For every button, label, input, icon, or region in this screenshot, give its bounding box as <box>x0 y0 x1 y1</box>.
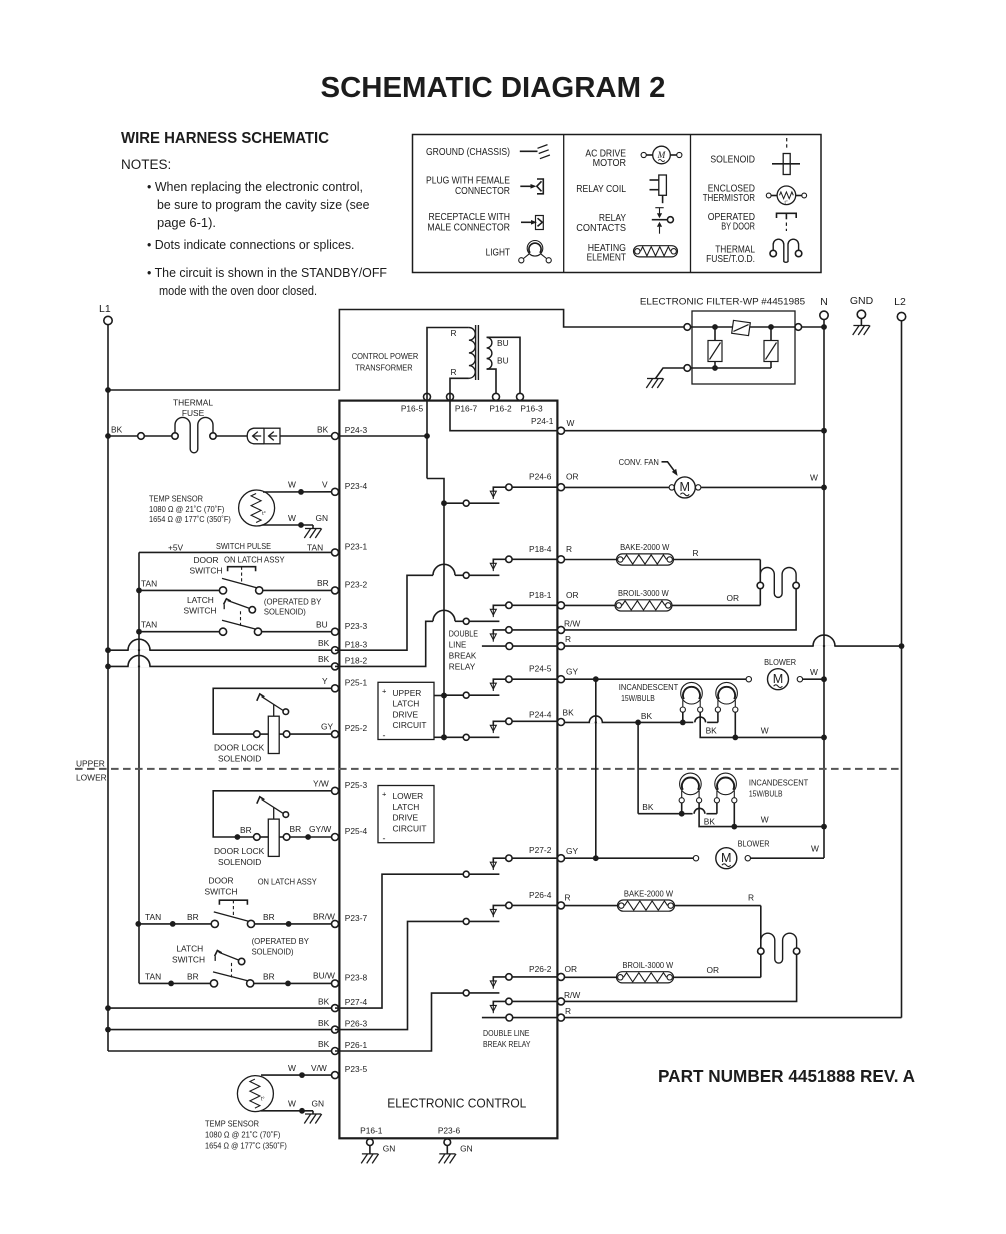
pin P23-1 <box>332 549 339 556</box>
svg-text:P18-1: P18-1 <box>529 590 552 600</box>
svg-text:P24-4: P24-4 <box>529 710 552 720</box>
pin P18-4 <box>558 556 565 563</box>
svg-text:GN: GN <box>312 1099 325 1109</box>
svg-text:FUSE: FUSE <box>182 408 205 418</box>
legend ac drive motor symbol <box>641 152 646 157</box>
svg-text:N: N <box>820 296 828 308</box>
lamp upper return W wire <box>700 712 735 737</box>
svg-text:TAN: TAN <box>307 543 323 553</box>
svg-text:BK: BK <box>318 1018 330 1028</box>
filter varistor left <box>708 341 722 362</box>
svg-text:P24-1: P24-1 <box>531 416 554 426</box>
lamp upper stems to BK wire <box>682 712 684 722</box>
svg-text:1080 Ω @ 21˚C (70˚F): 1080 Ω @ 21˚C (70˚F) <box>149 504 225 514</box>
svg-text:SWITCH PULSE: SWITCH PULSE <box>216 541 271 551</box>
transformer secondary lead top <box>487 337 520 393</box>
relay contact P26-4 <box>463 918 469 924</box>
svg-text:BU/W: BU/W <box>313 971 335 981</box>
svg-text:RELAY COIL: RELAY COIL <box>576 184 626 195</box>
svg-text:DRIVE: DRIVE <box>393 709 419 719</box>
lower door lock solenoid <box>213 791 331 837</box>
legend light symbol <box>527 241 543 257</box>
svg-text:GY: GY <box>566 667 579 677</box>
lamp lower stems <box>681 803 683 814</box>
svg-text:R: R <box>693 548 699 558</box>
transformer core <box>475 325 477 380</box>
blower upper wire <box>565 678 747 680</box>
svg-text:PART NUMBER 4451888 REV. A: PART NUMBER 4451888 REV. A <box>658 1066 915 1086</box>
thermal fuse <box>175 417 213 452</box>
svg-text:CONTROL POWER: CONTROL POWER <box>352 351 419 361</box>
svg-text:CONV. FAN: CONV. FAN <box>619 457 659 467</box>
relay contact P26-2 <box>463 990 469 996</box>
svg-text:CONTACTS: CONTACTS <box>576 223 626 234</box>
pin P26-3 <box>332 1026 339 1033</box>
upper door switch row wire <box>136 588 142 594</box>
svg-text:P16-1: P16-1 <box>360 1126 383 1136</box>
svg-text:LATCH: LATCH <box>187 595 214 605</box>
relay contact P24-5 <box>441 693 447 699</box>
svg-text:SOLENOID: SOLENOID <box>218 754 261 764</box>
svg-text:P23-7: P23-7 <box>345 913 368 923</box>
legend box <box>413 135 822 273</box>
wire R/W upper to TOD <box>565 589 797 630</box>
svg-text:Y: Y <box>322 676 328 686</box>
lower latch switch row wire <box>139 982 211 984</box>
svg-text:W: W <box>288 513 296 523</box>
svg-text:LIGHT: LIGHT <box>486 247 510 258</box>
svg-text:P23-6: P23-6 <box>438 1126 461 1136</box>
svg-text:ELEMENT: ELEMENT <box>587 253 626 264</box>
svg-text:P23-8: P23-8 <box>345 973 368 983</box>
ground symbol P16-1 <box>362 1153 378 1155</box>
splice connector <box>138 433 145 440</box>
transformer primary lead top <box>427 328 469 337</box>
svg-text:BU: BU <box>316 620 328 630</box>
svg-text:V: V <box>322 480 328 490</box>
lower door switch row wire <box>135 921 141 927</box>
svg-text:LOWER: LOWER <box>393 791 424 801</box>
svg-text:OR: OR <box>707 965 720 975</box>
electronic control box <box>339 401 557 1139</box>
pin P26-2 <box>558 973 565 980</box>
svg-text:BAKE-2000 W: BAKE-2000 W <box>624 888 673 898</box>
legend enclosed thermistor symbol <box>766 193 771 198</box>
BK wire L1 to P18-2 <box>105 664 111 670</box>
svg-text:ELECTRONIC FILTER-WP #4451985: ELECTRONIC FILTER-WP #4451985 <box>640 297 805 308</box>
BK wire L1 to P27-4 <box>105 1005 111 1011</box>
svg-text:R/W: R/W <box>564 990 580 1000</box>
svg-text:MOTOR: MOTOR <box>593 158 626 169</box>
svg-text:P26-3: P26-3 <box>345 1019 368 1029</box>
plug and receptacle pair <box>247 428 264 444</box>
wire R lower to L2 <box>565 1017 902 1019</box>
BK wire lamps lower <box>638 813 682 815</box>
pin P25-1 <box>332 685 339 692</box>
svg-text:OR: OR <box>727 593 740 603</box>
pin R/W lower <box>558 998 565 1005</box>
svg-text:SWITCH: SWITCH <box>172 955 205 965</box>
svg-text:P16-5: P16-5 <box>401 404 424 414</box>
svg-text:M: M <box>680 480 691 494</box>
svg-text:R: R <box>748 893 754 903</box>
svg-text:P24-5: P24-5 <box>529 664 552 674</box>
pin R/W upper <box>558 626 565 633</box>
filter vertical wire left varistor <box>714 327 716 368</box>
svg-text:TAN: TAN <box>141 620 157 630</box>
svg-text:SOLENOID: SOLENOID <box>218 857 261 867</box>
pin P16-7 <box>447 393 454 400</box>
svg-text:BREAK RELAY: BREAK RELAY <box>483 1039 531 1049</box>
svg-text:ON LATCH ASSY: ON LATCH ASSY <box>258 877 317 887</box>
svg-text:P26-2: P26-2 <box>529 964 552 974</box>
svg-text:P24-3: P24-3 <box>345 425 368 435</box>
ground symbol temp sensor lower <box>305 1113 321 1115</box>
legend heating element symbol <box>634 246 678 257</box>
svg-text:BK: BK <box>563 708 575 718</box>
pin P18-1 <box>558 602 565 609</box>
relay contact R/W upper <box>506 627 512 633</box>
svg-text:BLOWER: BLOWER <box>764 657 796 667</box>
svg-text:BR: BR <box>317 578 329 588</box>
svg-text:TRANSFORMER: TRANSFORMER <box>355 363 412 373</box>
pin P26-1 <box>332 1048 339 1055</box>
upper door lock solenoid <box>213 688 331 734</box>
svg-text:P26-4: P26-4 <box>529 890 552 900</box>
pin P24-6 <box>558 484 565 491</box>
lamp lower 1 <box>680 773 702 795</box>
wire temp sensor lower to P23-5 <box>261 1074 332 1076</box>
wire N vertical <box>823 320 825 859</box>
BK wire L1 to P18-3 <box>105 647 111 653</box>
relay contact R/W lower <box>506 998 512 1004</box>
svg-text:DOOR: DOOR <box>208 876 233 886</box>
svg-text:• When replacing the electroni: • When replacing the electronic control, <box>147 180 363 194</box>
svg-text:P16-2: P16-2 <box>489 404 512 414</box>
svg-text:OR: OR <box>565 964 578 974</box>
legend thermal fuse symbol <box>773 239 798 262</box>
svg-text:W: W <box>288 1099 296 1109</box>
filter input connector bottom <box>684 365 691 372</box>
svg-text:TAN: TAN <box>145 912 161 922</box>
wire P26-1 riser to contact <box>335 993 463 1051</box>
svg-text:BK: BK <box>111 425 123 435</box>
ground symbol P23-6 <box>439 1153 455 1155</box>
svg-text:P26-1: P26-1 <box>345 1040 368 1050</box>
svg-text:ELECTRONIC CONTROL: ELECTRONIC CONTROL <box>387 1096 526 1111</box>
svg-text:P23-5: P23-5 <box>345 1064 368 1074</box>
transformer primary coil <box>469 328 475 379</box>
legend operated by door symbol <box>777 213 797 218</box>
svg-text:RELAY: RELAY <box>449 661 476 671</box>
lamps BK vertical to lower section <box>637 722 639 813</box>
svg-text:TEMP SENSOR: TEMP SENSOR <box>149 494 203 504</box>
temp sensor upper (thermistor) <box>239 490 275 526</box>
transformer secondary coil <box>487 337 492 369</box>
legend relay coil symbol <box>659 175 667 195</box>
svg-text:P16-7: P16-7 <box>455 404 478 414</box>
svg-text:BK: BK <box>318 654 330 664</box>
svg-text:LATCH: LATCH <box>393 699 420 709</box>
svg-text:P23-4: P23-4 <box>345 481 368 491</box>
svg-text:WIRE HARNESS SCHEMATIC: WIRE HARNESS SCHEMATIC <box>121 130 329 147</box>
svg-text:SWITCH: SWITCH <box>204 887 237 897</box>
svg-text:SCHEMATIC DIAGRAM 2: SCHEMATIC DIAGRAM 2 <box>321 72 666 104</box>
svg-text:TEMP SENSOR: TEMP SENSOR <box>205 1119 259 1129</box>
svg-text:CONNECTOR: CONNECTOR <box>455 186 510 197</box>
pin P23-3 <box>332 628 339 635</box>
temp sensor lower (thermistor) <box>237 1076 273 1112</box>
svg-text:page 6-1).: page 6-1). <box>157 216 216 230</box>
legend receptacle symbol <box>521 221 534 223</box>
svg-text:(OPERATED BY: (OPERATED BY <box>252 936 310 946</box>
svg-text:W: W <box>567 418 575 428</box>
svg-text:W: W <box>811 844 819 854</box>
pin P18-3 <box>332 647 339 654</box>
svg-text:BR: BR <box>187 972 199 982</box>
wire bake lower to TOD lower <box>760 906 762 978</box>
wire R upper to L2 <box>565 645 902 647</box>
svg-text:t°: t° <box>261 1097 265 1103</box>
pin P27-2 <box>558 855 565 862</box>
svg-text:be sure to program the cavity: be sure to program the cavity size (see <box>157 198 370 212</box>
svg-text:GN: GN <box>383 1144 396 1154</box>
lower door switch <box>211 920 218 927</box>
svg-text:R: R <box>565 634 571 644</box>
pin P26-4 <box>558 902 565 909</box>
pin P25-4 <box>332 834 339 841</box>
wire L1 to thermal fuse <box>105 433 111 439</box>
svg-text:t°: t° <box>785 199 788 205</box>
broil element lower wire <box>565 976 618 978</box>
svg-text:OR: OR <box>566 590 579 600</box>
upper latch switch <box>219 628 226 635</box>
svg-text:W: W <box>810 667 818 677</box>
svg-text:BK: BK <box>642 802 654 812</box>
pin R upper <box>558 643 565 650</box>
svg-text:SOLENOID): SOLENOID) <box>252 947 294 957</box>
svg-text:CIRCUIT: CIRCUIT <box>393 720 427 730</box>
svg-text:P25-3: P25-3 <box>345 780 368 790</box>
bake element lower wire <box>565 905 619 907</box>
wire upper latch drive to relay common <box>434 695 444 697</box>
conv fan motor <box>669 485 674 490</box>
svg-text:P25-4: P25-4 <box>345 826 368 836</box>
svg-text:M: M <box>773 672 784 686</box>
pin P18-2 <box>332 663 339 670</box>
wire P16-7 to P24-1 <box>450 386 557 431</box>
svg-text:BR/W: BR/W <box>313 912 335 922</box>
svg-text:BREAK: BREAK <box>449 650 477 660</box>
wire P16-5 down (transformer primary to P24-3 node) <box>426 336 428 479</box>
TOD lower <box>761 933 797 963</box>
svg-text:V/W: V/W <box>311 1063 327 1073</box>
svg-text:P18-3: P18-3 <box>345 639 368 649</box>
svg-text:BLOWER: BLOWER <box>738 839 770 849</box>
lamp lower 2 <box>715 773 737 795</box>
svg-text:THERMISTOR: THERMISTOR <box>703 193 755 204</box>
conv fan wire <box>565 486 672 488</box>
svg-text:GND: GND <box>850 295 874 307</box>
pin P23-7 <box>332 920 339 927</box>
wire P18-2 riser to contact <box>335 621 433 666</box>
svg-text:ON LATCH ASSY: ON LATCH ASSY <box>224 555 285 565</box>
svg-text:t°: t° <box>262 511 266 517</box>
wire L1 vertical <box>107 325 109 1051</box>
svg-text:BR: BR <box>290 824 302 834</box>
svg-text:BR: BR <box>263 972 275 982</box>
svg-text:P18-4: P18-4 <box>529 544 552 554</box>
relay contact P27-2 <box>463 871 469 877</box>
wire P26-3 riser to contact <box>335 921 463 1029</box>
svg-text:GY: GY <box>321 722 334 732</box>
svg-text:BAKE-2000 W: BAKE-2000 W <box>620 542 669 552</box>
svg-text:-: - <box>383 731 386 741</box>
wire P24-3 internal to P16-5 node <box>339 435 428 437</box>
svg-text:BK: BK <box>318 1039 330 1049</box>
svg-text:P25-2: P25-2 <box>345 723 368 733</box>
svg-text:OR: OR <box>566 472 579 482</box>
filter output connector <box>795 324 802 331</box>
svg-text:+: + <box>382 790 387 799</box>
svg-text:CIRCUIT: CIRCUIT <box>393 823 427 833</box>
pin R lower <box>558 1014 565 1021</box>
lower latch drive circuit box <box>378 786 434 843</box>
lamp lower return W wire <box>699 803 734 827</box>
pin P23-4 <box>332 488 339 495</box>
upper door switch <box>219 587 226 594</box>
svg-text:P27-2: P27-2 <box>529 845 552 855</box>
svg-text:R: R <box>450 328 456 338</box>
pin P16-3 <box>517 393 524 400</box>
filter vertical wire right varistor <box>770 327 772 368</box>
wire L2 vertical <box>901 321 903 1018</box>
svg-text:GN: GN <box>460 1144 473 1154</box>
wire bake to TOD <box>759 560 761 606</box>
lamp upper 1 <box>681 682 703 704</box>
temp sensor upper ground wire <box>263 524 314 526</box>
pin P25-2 <box>332 731 339 738</box>
filter varistor right <box>764 341 778 362</box>
legend plug symbol <box>520 185 533 187</box>
svg-text:BU: BU <box>497 338 509 348</box>
filter ground wire <box>656 368 685 379</box>
svg-text:-: - <box>383 834 386 844</box>
svg-text:BK: BK <box>318 996 330 1006</box>
svg-text:DOUBLE: DOUBLE <box>449 628 478 638</box>
svg-text:SWITCH: SWITCH <box>189 566 222 576</box>
transformer secondary lead bottom <box>487 369 496 393</box>
svg-text:R: R <box>565 893 571 903</box>
svg-text:GROUND (CHASSIS): GROUND (CHASSIS) <box>426 147 510 158</box>
pin P16-2 <box>493 393 500 400</box>
pin P24-4 <box>558 719 565 726</box>
filter output wire to N <box>802 326 824 328</box>
lower latch switch <box>210 980 217 987</box>
TAN bus vertical <box>138 552 140 983</box>
svg-text:• Dots indicate connections or: • Dots indicate connections or splices. <box>147 238 355 252</box>
svg-text:SOLENOID: SOLENOID <box>710 155 755 166</box>
svg-text:GY/W: GY/W <box>309 824 331 834</box>
filter MOV <box>732 320 751 335</box>
svg-text:W: W <box>761 815 769 825</box>
svg-text:M: M <box>721 851 732 865</box>
svg-text:M: M <box>657 150 667 160</box>
wire P27-4 riser to contact <box>335 874 463 1008</box>
svg-text:BR: BR <box>263 912 275 922</box>
relay contact P18-1 <box>463 618 469 624</box>
BK wire L1 to P26-3 <box>105 1027 111 1033</box>
svg-text:LINE: LINE <box>449 639 467 649</box>
svg-text:+: + <box>382 687 387 696</box>
svg-text:R: R <box>565 1006 571 1016</box>
pin P16-5 <box>424 393 431 400</box>
broil element upper wire <box>565 604 616 606</box>
svg-text:BR: BR <box>187 912 199 922</box>
upper latch switch row wire <box>136 629 142 635</box>
relay contact P24-4 <box>441 734 447 740</box>
svg-text:P23-3: P23-3 <box>345 621 368 631</box>
svg-text:(OPERATED BY: (OPERATED BY <box>264 597 322 607</box>
upper latch drive circuit box <box>378 682 434 739</box>
temp sensor lower ground wire <box>261 1110 314 1112</box>
svg-text:mode with the oven door closed: mode with the oven door closed. <box>159 284 317 298</box>
svg-text:BK: BK <box>706 725 718 735</box>
legend solenoid symbol <box>786 138 788 150</box>
wire R/W lower to TOD lower <box>565 955 797 1002</box>
legend ground symbol <box>520 150 538 152</box>
svg-text:SOLENOID): SOLENOID) <box>264 607 306 617</box>
svg-text:BK: BK <box>704 816 716 826</box>
svg-text:UPPER: UPPER <box>76 759 105 769</box>
wire temp sensor to P23-4 <box>263 491 332 493</box>
pin P23-5 <box>332 1072 339 1079</box>
svg-text:GY: GY <box>566 846 579 856</box>
svg-text:W: W <box>761 725 769 735</box>
svg-text:P27-4: P27-4 <box>345 997 368 1007</box>
svg-text:P18-2: P18-2 <box>345 656 368 666</box>
svg-text:FUSE/T.O.D.: FUSE/T.O.D. <box>706 254 755 265</box>
svg-text:BK: BK <box>641 711 653 721</box>
transformer primary lead bottom <box>450 378 469 386</box>
svg-text:R/W: R/W <box>564 619 580 629</box>
filter internal top wire <box>691 326 795 328</box>
svg-text:BK: BK <box>317 425 329 435</box>
svg-text:RECEPTACLE WITH: RECEPTACLE WITH <box>429 212 511 223</box>
GY vertical <box>595 679 597 858</box>
svg-text:THERMAL: THERMAL <box>173 398 213 408</box>
filter internal bottom wire <box>691 367 771 369</box>
svg-text:BY DOOR: BY DOOR <box>721 221 755 232</box>
svg-text:Y/W: Y/W <box>313 779 329 789</box>
svg-text:L1: L1 <box>99 303 111 315</box>
ground symbol temp sensor upper <box>305 528 321 530</box>
svg-text:DOOR: DOOR <box>193 555 218 565</box>
pin P27-4 <box>332 1005 339 1012</box>
svg-text:R: R <box>566 544 572 554</box>
pin P24-5 <box>558 676 565 683</box>
svg-text:LATCH: LATCH <box>176 944 203 954</box>
filter ground symbol <box>647 378 663 380</box>
svg-text:INCANDESCENT: INCANDESCENT <box>619 682 679 692</box>
lamp upper 2 <box>716 682 738 704</box>
main relay common vertical <box>427 479 444 738</box>
svg-text:P16-3: P16-3 <box>520 404 543 414</box>
svg-text:BK: BK <box>318 638 330 648</box>
svg-text:1654 Ω @ 177˚C (350˚F): 1654 Ω @ 177˚C (350˚F) <box>205 1141 287 1151</box>
svg-text:DRIVE: DRIVE <box>393 813 419 823</box>
svg-text:SWITCH: SWITCH <box>184 606 217 616</box>
